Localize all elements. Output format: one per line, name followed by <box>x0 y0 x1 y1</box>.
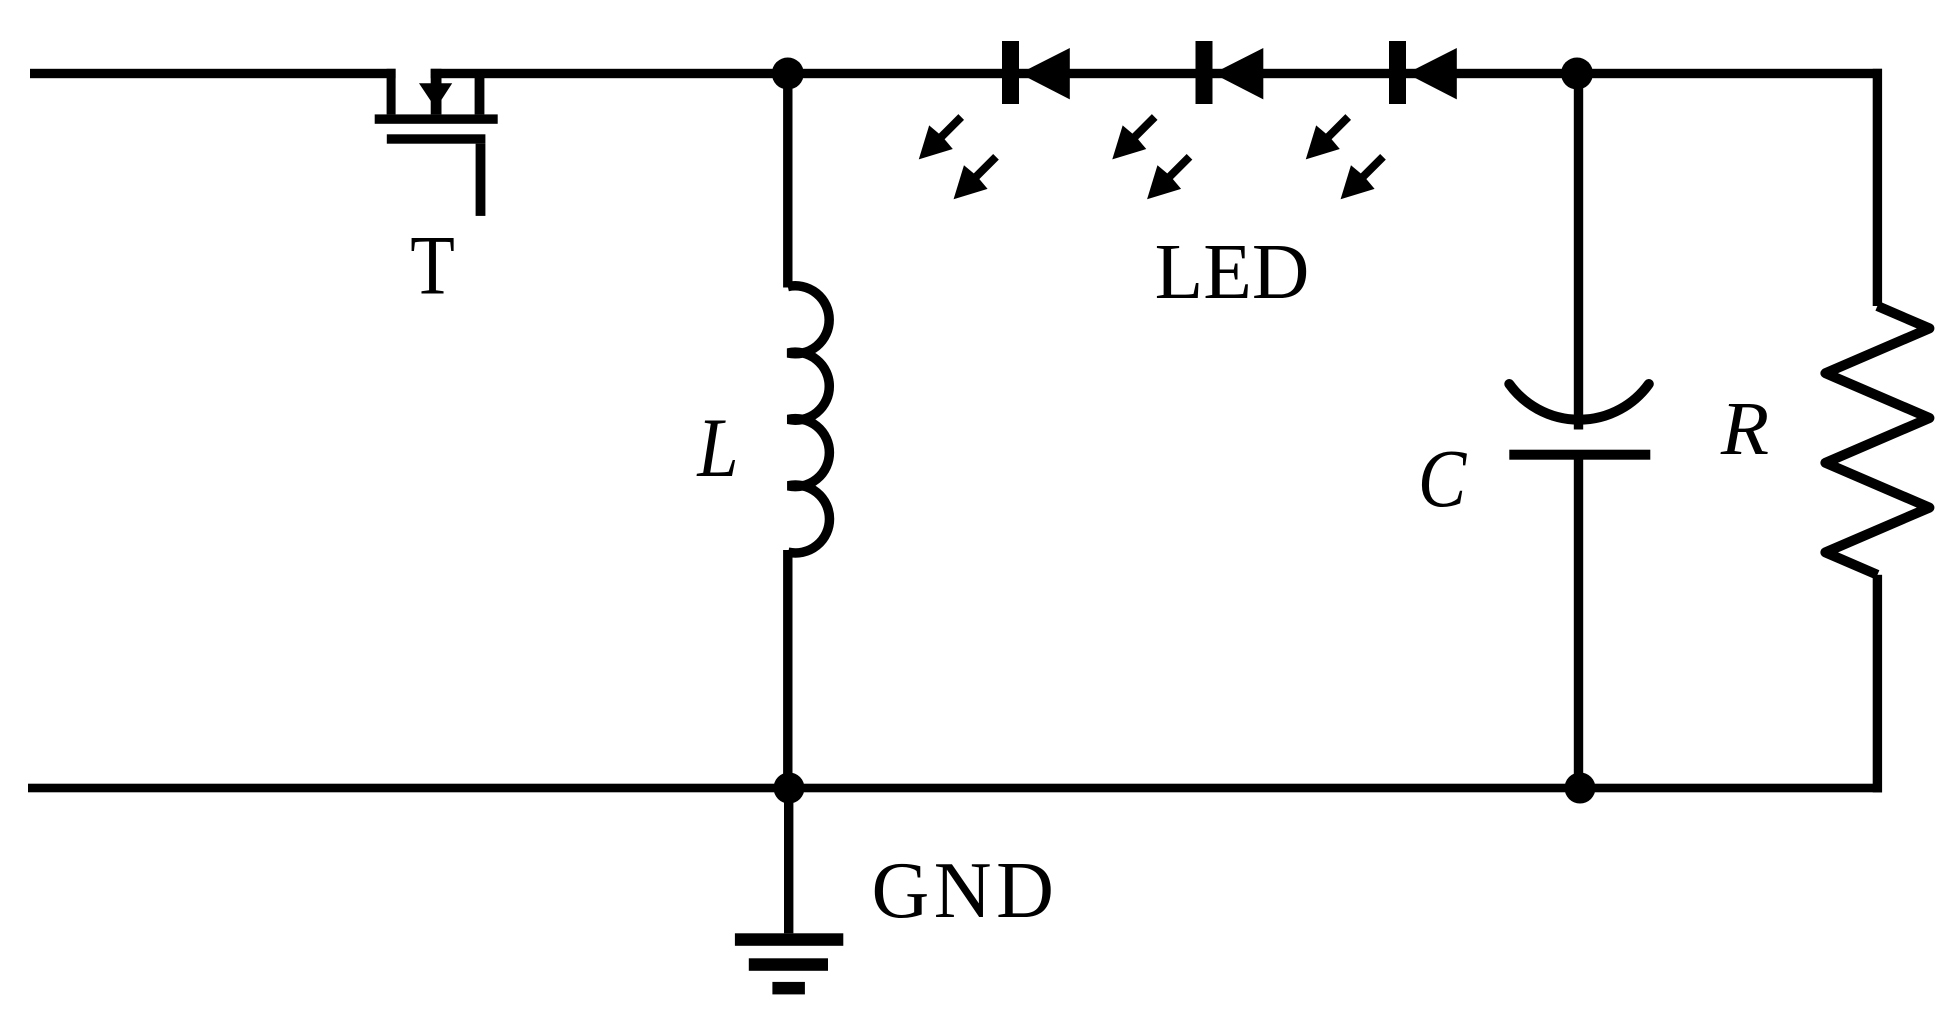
wire top-left (input to transistor drain) <box>30 69 396 78</box>
inductor L branch: top wire <box>783 74 792 288</box>
node D (bottom capacitor junction) <box>1565 773 1596 804</box>
capacitor C curved plate <box>1509 384 1649 420</box>
svg-text:T: T <box>410 220 455 313</box>
capacitor C branch: top wire <box>1574 74 1583 430</box>
node C (bottom inductor junction) <box>774 773 805 804</box>
drain lead vertical <box>387 69 396 115</box>
resistor R zigzag <box>1825 306 1929 575</box>
ground bar 2 <box>749 958 828 971</box>
transistor T (MOSFET) <box>375 69 498 216</box>
bulk arrow stem <box>431 69 442 115</box>
svg-text:GND: GND <box>871 847 1058 935</box>
LED D2 <box>1196 41 1264 104</box>
svg-text:LED: LED <box>1155 228 1310 316</box>
capacitor C bottom wire <box>1574 455 1583 788</box>
gate bar <box>387 134 486 143</box>
ground bar 1 <box>735 933 843 946</box>
resistor R bottom wire <box>1873 575 1882 793</box>
inductor L coil <box>788 286 830 553</box>
ground bar 3 <box>772 982 805 995</box>
inductor L bottom wire <box>783 550 792 788</box>
capacitor C straight plate <box>1509 450 1650 460</box>
LED D1 <box>1002 41 1070 104</box>
LED D3 light arrows <box>1294 105 1360 171</box>
node A (top inductor junction) <box>772 58 804 90</box>
node B (top capacitor junction) <box>1561 58 1593 90</box>
LED D2 light arrows <box>1100 105 1166 171</box>
svg-text:R: R <box>1720 386 1769 471</box>
ground lead <box>784 788 793 933</box>
resistor R branch: top wire <box>1873 69 1882 306</box>
channel bar <box>375 114 498 123</box>
wire bottom rail <box>28 784 1882 793</box>
source lead vertical <box>475 74 485 115</box>
gate lead vertical <box>476 144 486 216</box>
svg-text:C: C <box>1418 433 1467 524</box>
LED D1 light arrows <box>907 105 973 171</box>
LED D3 <box>1389 41 1457 104</box>
wire top (transistor source to right corner) <box>431 69 1882 78</box>
bulk arrow head <box>419 83 452 108</box>
svg-text:L: L <box>696 402 738 496</box>
